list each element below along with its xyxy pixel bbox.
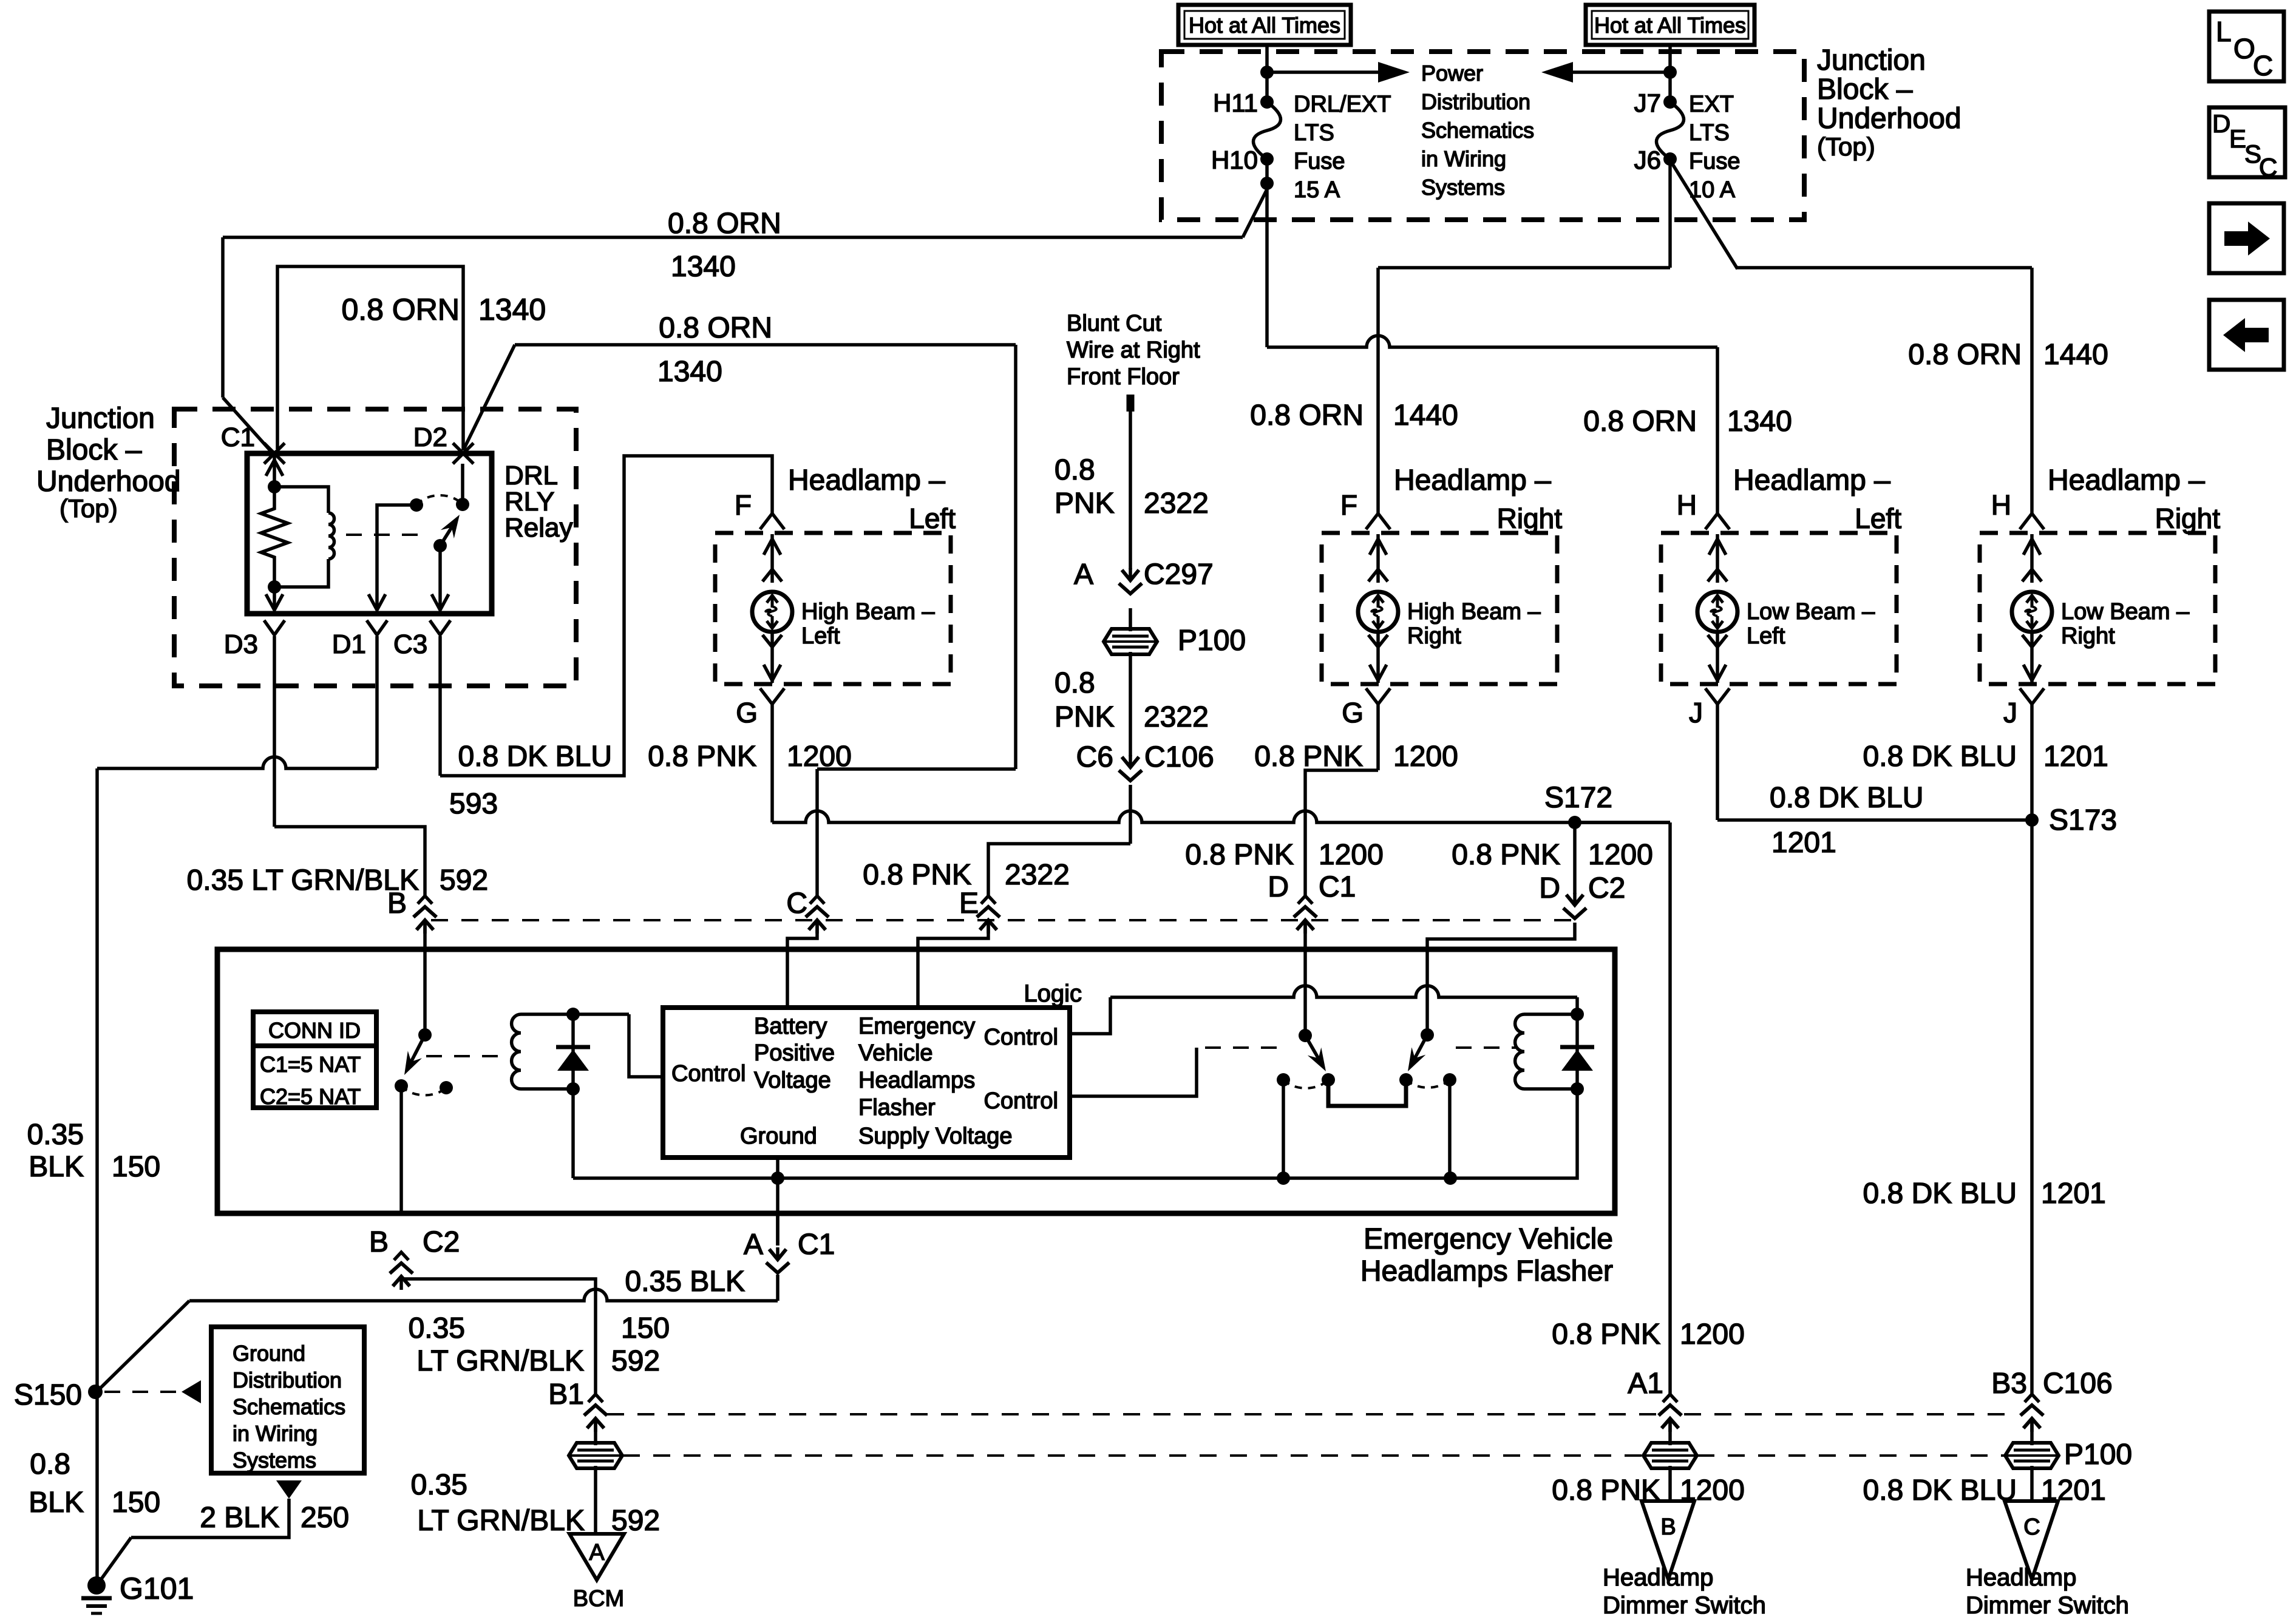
svg-text:Hot at All Times: Hot at All Times [1594,13,1746,38]
LOC nav box [2209,12,2284,81]
svg-text:1440: 1440 [2043,339,2108,371]
splice S150 [88,1385,103,1399]
svg-text:2 BLK: 2 BLK [200,1502,279,1534]
svg-text:J6: J6 [1634,146,1661,174]
wire 0.8 ORN 1340 horizontal run to junction block [223,236,1243,239]
svg-text:592: 592 [440,864,488,897]
svg-text:Junction: Junction [46,402,155,435]
Hot at All Times box 1 [1178,5,1351,45]
svg-text:S172: S172 [1544,782,1612,814]
grommet P100 [1104,629,1157,654]
connector A C1 (ground output) [776,1213,779,1246]
svg-text:Headlamp: Headlamp [1966,1564,2076,1591]
svg-text:High Beam –: High Beam – [801,599,936,625]
wire 0.8 PNK 1200 from S172 to headlamp dimmer switch B [1575,821,1670,824]
svg-text:Systems: Systems [1421,175,1505,200]
svg-text:D: D [1268,871,1289,903]
svg-text:BCM: BCM [573,1586,624,1612]
svg-text:B: B [1660,1514,1676,1540]
svg-text:Underhood: Underhood [1817,103,1961,135]
dashed to ground distribution note [104,1391,176,1393]
svg-text:0.8 DK BLU: 0.8 DK BLU [1770,782,1923,814]
dashed line through P100 row [623,1454,1643,1457]
svg-text:0.8 DK BLU: 0.8 DK BLU [1863,1474,2017,1507]
wire 0.8 ORN 1340 fuse H10 down-branch [1265,159,1269,347]
svg-text:2322: 2322 [1144,487,1209,520]
svg-text:Flasher: Flasher [858,1095,936,1120]
svg-text:Supply Voltage: Supply Voltage [858,1124,1013,1149]
svg-text:LT GRN/BLK: LT GRN/BLK [417,1505,585,1537]
svg-text:Schematics: Schematics [233,1394,345,1419]
junction dot [1260,66,1274,79]
headlamp dimmer switch B triangle [1642,1501,1694,1579]
svg-text:DRL: DRL [504,461,558,490]
svg-text:Junction: Junction [1817,44,1926,76]
svg-text:1200: 1200 [1393,741,1458,773]
svg-text:J: J [1689,697,1703,728]
headlamp left low beam box bulb [1697,592,1737,632]
logic module box [663,1008,1070,1158]
svg-text:B3: B3 [1991,1368,2027,1400]
connector E [981,896,996,904]
svg-text:H10: H10 [1211,146,1258,174]
svg-text:G: G [736,697,758,728]
svg-text:0.8 DK BLU: 0.8 DK BLU [1863,1178,2017,1210]
wire 0.8 PNK 1200 from high-beam-right G to flasher D/C1 [1376,704,1380,770]
svg-text:S150: S150 [14,1379,82,1411]
svg-text:L: L [2216,16,2232,47]
svg-text:1200: 1200 [1319,839,1384,871]
wire to BCM [594,1423,597,1445]
wire 0.35 BLK 150 to S150 [776,1275,779,1301]
grommet P100 [2005,1443,2059,1468]
svg-text:Battery: Battery [754,1014,827,1039]
wire from hot feed 2 into fuse block [1668,45,1672,102]
mechanical link coil-switch [346,534,425,536]
svg-text:Relay: Relay [504,513,573,543]
blunt cut wire [1127,395,1135,412]
D1 contact wire [377,505,416,610]
svg-text:C3: C3 [393,629,427,659]
switch pivot [433,539,447,552]
back arrow nav box [2209,300,2284,370]
svg-text:J: J [2003,697,2017,728]
svg-text:B1: B1 [548,1378,584,1411]
svg-text:D1: D1 [332,629,366,659]
svg-text:592: 592 [611,1345,660,1377]
svg-text:Fuse: Fuse [1294,149,1345,174]
svg-text:1200: 1200 [787,741,852,773]
svg-text:C1: C1 [798,1229,835,1261]
splice run to S172 [772,811,1670,822]
svg-text:High Beam –: High Beam – [1407,599,1541,625]
connector D C2 [1573,893,1577,905]
headlamp left high beam box bulb [752,592,792,632]
BCM triangle [569,1534,624,1580]
logic ground pin [776,1158,779,1178]
svg-text:Emergency: Emergency [858,1014,975,1039]
svg-text:C6: C6 [1076,741,1113,773]
wire 0.8 ORN 1340 from D2 to flasher C [463,345,515,450]
svg-text:150: 150 [112,1486,160,1519]
svg-text:PNK: PNK [1055,701,1115,733]
Hot at All Times box 2 [1586,5,1754,45]
svg-text:0.8 DK BLU: 0.8 DK BLU [1863,741,2017,773]
svg-text:Headlamps: Headlamps [858,1068,975,1093]
arrow to Power Distribution (left) [1570,70,1670,74]
svg-text:BLK: BLK [29,1486,84,1519]
coil to D3 ground pin [273,587,276,610]
svg-text:15 A: 15 A [1294,177,1340,203]
svg-text:Positive: Positive [754,1040,835,1066]
junction dot [1663,66,1677,79]
diode to ground bus [571,1089,575,1178]
svg-text:(Top): (Top) [59,494,118,523]
mechanical link [426,1055,509,1057]
svg-text:Low Beam –: Low Beam – [1747,599,1875,625]
svg-text:Headlamps Flasher: Headlamps Flasher [1360,1255,1613,1287]
svg-text:1340: 1340 [1727,405,1792,438]
svg-text:1200: 1200 [1588,839,1653,871]
relay pin D3 [264,620,285,635]
ground G101 [87,1576,106,1595]
svg-text:EXT: EXT [1689,92,1734,117]
bridge between switch contacts [1328,1080,1406,1106]
flasher left relay coil [521,1012,629,1016]
connector A C297 [1129,568,1132,580]
headlamp right high beam box terminal F [1366,514,1390,529]
pivot [1299,1029,1312,1042]
svg-text:Headlamp –: Headlamp – [1394,464,1551,497]
svg-text:0.8 PNK: 0.8 PNK [1552,1318,1660,1351]
svg-text:RLY: RLY [504,487,554,517]
svg-text:D2: D2 [413,422,447,452]
right diode to ground bus [1450,1089,1577,1178]
fuse EXT LTS 10A [1663,95,1677,109]
svg-text:P100: P100 [2064,1439,2132,1471]
relay pin D1 [367,620,387,635]
wire D1 to ground run [375,636,379,768]
svg-text:C: C [786,887,807,920]
svg-text:Dimmer Switch: Dimmer Switch [1966,1592,2129,1617]
wire D3 to flasher B 0.35 LT GRN/BLK 592 [273,636,276,827]
svg-text:A: A [589,1540,605,1565]
connector B1 [588,1394,603,1402]
svg-text:Left: Left [909,503,956,534]
svg-text:1340: 1340 [671,251,736,283]
svg-text:A: A [1074,558,1093,591]
headlamp left high beam box terminal G [770,632,774,683]
outer contacts to ground bus [1282,1080,1285,1178]
svg-text:Distribution: Distribution [1421,89,1530,114]
svg-text:Right: Right [1497,503,1563,534]
svg-text:0.8: 0.8 [1055,454,1095,486]
svg-text:150: 150 [112,1151,160,1183]
svg-text:LTS: LTS [1294,120,1334,146]
wire E into flasher [918,925,988,1008]
svg-text:B: B [369,1226,389,1258]
headlamp right low beam box terminal H [2020,514,2044,529]
connector C [810,896,824,904]
flasher switch 1 [1303,923,1307,1036]
wire C3 to high beam left F 0.8 DK BLU 593 [438,636,442,776]
resistor (coil suppression) [261,487,288,587]
connector C6 C106 [1129,755,1132,767]
svg-text:Power: Power [1421,61,1483,86]
svg-text:P100: P100 [1178,625,1246,657]
svg-text:0.8: 0.8 [1055,667,1095,699]
ground horizontal from D1 [97,757,377,768]
svg-text:DRL/EXT: DRL/EXT [1294,92,1391,117]
headlamp left high beam box terminal F [760,514,784,529]
mechanical link switch2-coil [1456,1046,1518,1049]
dashed line through B1/A1/B3 connectors [607,1413,1656,1415]
moving contact 2 [1399,1073,1413,1086]
svg-text:Right: Right [2155,503,2221,534]
headlamp left low beam box terminal J [1716,632,1719,683]
C3 pivot wire [438,546,442,610]
svg-text:C: C [2023,1514,2040,1540]
wire 0.8 ORN 1440 fuse J6 to low beam right H [1670,160,1737,269]
wire 0.8 DK BLU 1201 low beam left J to S173 [1716,704,1719,820]
svg-text:C1: C1 [1319,871,1356,903]
svg-text:Low Beam –: Low Beam – [2061,599,2190,625]
svg-text:Right: Right [1407,623,1461,649]
headlamp dimmer switch C triangle [2005,1501,2058,1579]
svg-text:1440: 1440 [1393,399,1458,432]
svg-text:Distribution: Distribution [233,1368,342,1392]
headlamp right low beam box bulb [2012,592,2052,632]
svg-text:C106: C106 [1144,741,1214,773]
connector B [418,896,432,904]
relay coil [274,487,328,513]
headlamp right high beam box terminal G [1376,632,1380,683]
svg-text:1340: 1340 [478,293,546,327]
junction block underhood (top) dashed box [1161,52,1804,220]
svg-text:Block –: Block – [46,434,142,466]
relay pin C1 [264,443,285,464]
connector A C1 [776,1247,779,1259]
svg-text:Control: Control [984,1025,1059,1050]
svg-text:O: O [2233,33,2255,64]
wire 2 BLK 250 [131,1499,289,1537]
svg-text:1200: 1200 [1680,1318,1745,1351]
relay pin D2 [453,443,474,464]
DESC nav box [2209,107,2285,177]
svg-text:C2=5 NAT: C2=5 NAT [260,1084,361,1109]
headlamp right low beam box [1980,533,2215,684]
wire to B/C2 [399,1086,403,1213]
svg-text:C1=5 NAT: C1=5 NAT [260,1052,361,1077]
svg-text:E: E [959,887,979,920]
svg-text:Logic: Logic [1024,980,1082,1007]
control 1 wire to right coil [1070,997,1110,1034]
headlamp right high beam box bulb [1358,592,1398,632]
svg-text:Systems: Systems [233,1448,316,1473]
svg-text:0.8 ORN: 0.8 ORN [659,312,772,344]
svg-text:Emergency Vehicle: Emergency Vehicle [1364,1223,1613,1255]
wire C into flasher [787,925,817,1008]
svg-text:F: F [735,489,752,521]
wire from hot feed 1 into fuse block [1265,45,1269,102]
svg-text:Headlamp –: Headlamp – [1733,464,1890,497]
headlamp left low beam box terminal H [1705,514,1730,529]
relay pin C3 [430,620,450,635]
svg-text:0.8 PNK: 0.8 PNK [648,741,756,773]
forward arrow nav box [2209,203,2284,273]
left control link to logic [629,1014,663,1077]
svg-text:G: G [1342,697,1364,728]
emergency vehicle headlamps flasher box [217,949,1615,1213]
svg-text:0.8 ORN: 0.8 ORN [1250,399,1364,432]
svg-text:Headlamp –: Headlamp – [788,464,945,497]
contact from D1 [410,498,423,512]
svg-text:Blunt Cut: Blunt Cut [1067,311,1162,336]
svg-text:0.8 PNK: 0.8 PNK [863,859,971,891]
fuse DRL/EXT LTS 15A [1260,95,1274,109]
svg-text:Right: Right [2061,623,2115,649]
moving contact 1 [1322,1073,1335,1086]
svg-text:Schematics: Schematics [1421,118,1534,143]
svg-text:C: C [2253,50,2273,81]
svg-text:C2: C2 [423,1226,460,1258]
contact to B/C2 [395,1079,408,1093]
CONN ID table [253,1012,376,1108]
svg-text:Vehicle: Vehicle [858,1040,933,1066]
wire D2 loop to C1 [277,266,463,450]
svg-text:Hot at All Times: Hot at All Times [1189,13,1340,38]
headlamp left low beam box [1661,533,1897,684]
relay coil feed from C1 [273,453,276,487]
svg-text:B: B [387,887,407,920]
wire 0.8 ORN 1340 feed to low beam left H [1267,336,1717,347]
flasher right relay coil [1524,1012,1577,1016]
ground distribution box [211,1327,364,1473]
control 2 wire [1070,1048,1197,1096]
svg-text:0.8 ORN: 0.8 ORN [341,293,460,327]
svg-text:D: D [1539,872,1560,904]
svg-text:Dimmer Switch: Dimmer Switch [1603,1592,1766,1617]
wire 0.8 PNK 2322 to flasher E [1129,785,1132,844]
svg-text:593: 593 [449,788,498,820]
outer contact 2 [1443,1073,1456,1086]
svg-text:D3: D3 [224,629,258,659]
svg-text:G101: G101 [120,1571,194,1605]
grommet P100 [1643,1443,1697,1468]
contact to D2 [456,498,469,511]
flasher left diode [571,1014,575,1089]
svg-text:0.35 LT GRN/BLK: 0.35 LT GRN/BLK [187,864,419,897]
svg-text:LT GRN/BLK: LT GRN/BLK [416,1345,584,1377]
svg-text:Ground: Ground [740,1124,817,1149]
triangle below ground distribution box [276,1480,302,1499]
svg-text:Fuse: Fuse [1689,149,1740,174]
svg-text:1201: 1201 [2043,741,2108,773]
connector A1 [1663,1394,1677,1402]
svg-text:C106: C106 [2043,1368,2113,1400]
svg-text:Headlamp –: Headlamp – [2048,464,2205,497]
svg-text:LTS: LTS [1689,120,1730,146]
svg-text:H: H [1991,489,2011,521]
svg-text:0.35: 0.35 [27,1119,84,1151]
wire B into flasher [423,925,427,1035]
svg-text:0.35: 0.35 [409,1312,465,1344]
headlamp right high beam box [1322,533,1557,684]
switch pivot [418,1028,432,1042]
svg-text:E: E [2229,124,2246,153]
svg-text:CONN ID: CONN ID [268,1018,361,1043]
svg-text:Ground: Ground [233,1341,305,1366]
left ground vertical 0.35 BLK 150 [95,768,99,1585]
outer contact 1 [1277,1073,1290,1086]
svg-text:in Wiring: in Wiring [233,1421,318,1446]
svg-text:0.8 PNK: 0.8 PNK [1254,741,1363,773]
svg-text:F: F [1340,489,1357,521]
ground bus [573,1176,1450,1180]
headlamp right low beam box terminal J [2030,632,2034,683]
svg-text:2322: 2322 [1144,701,1209,733]
wire down to relay C1 [221,237,225,398]
wire diagonal to 1340 horizontal [1243,189,1267,237]
svg-text:Left: Left [801,623,840,649]
DRL RLY relay box [247,453,492,614]
connector dashed line C100-ish [431,919,1575,921]
wire 0.8 ORN 1440 fuse J6 to high beam right F [1668,159,1672,268]
svg-text:Block –: Block – [1817,73,1913,106]
svg-text:Left: Left [1855,503,1901,534]
splice S172 [1568,816,1581,829]
svg-text:J7: J7 [1634,89,1661,117]
svg-text:C: C [2259,153,2277,181]
svg-text:C2: C2 [1588,872,1625,904]
svg-text:1201: 1201 [1771,827,1836,859]
svg-text:in Wiring: in Wiring [1421,146,1506,171]
svg-text:D: D [2212,109,2230,138]
flasher right diode [1575,1014,1579,1089]
svg-text:250: 250 [301,1502,349,1534]
svg-text:Left: Left [1747,623,1785,649]
svg-text:0.35 BLK: 0.35 BLK [625,1266,745,1298]
svg-text:PNK: PNK [1055,487,1115,520]
svg-text:A: A [744,1229,763,1261]
junction block underhood dashed box (left) [174,409,576,686]
svg-text:Control: Control [984,1088,1059,1114]
wire from S172 down to flasher D/C2 [1573,822,1577,894]
pivot [1421,1028,1434,1042]
svg-text:H: H [1677,489,1697,521]
svg-text:0.8 ORN: 0.8 ORN [1583,405,1697,438]
svg-text:Control: Control [671,1061,746,1086]
arrow to Power Distribution [1267,70,1381,74]
svg-text:Front Floor: Front Floor [1067,364,1180,390]
connector B C2 [394,1252,409,1260]
svg-text:0.8 PNK: 0.8 PNK [1185,839,1294,871]
svg-text:S173: S173 [2049,804,2117,836]
svg-text:H11: H11 [1213,89,1258,117]
grommet P100 [569,1443,622,1468]
svg-text:Underhood: Underhood [36,466,181,498]
svg-text:1340: 1340 [657,356,722,388]
svg-text:0.8: 0.8 [30,1448,70,1480]
svg-text:1201: 1201 [2041,1178,2106,1210]
splice S173 [2025,813,2039,827]
connector D C1 [1298,896,1313,904]
svg-text:2322: 2322 [1005,859,1070,891]
svg-text:0.8 ORN: 0.8 ORN [1908,339,2022,371]
ground output wire to A/C1 [776,1178,779,1246]
wire 0.8 DK BLU 1201 low beam right J down to dimmer switch C [2030,704,2034,1396]
svg-text:Wire at Right: Wire at Right [1067,337,1200,363]
